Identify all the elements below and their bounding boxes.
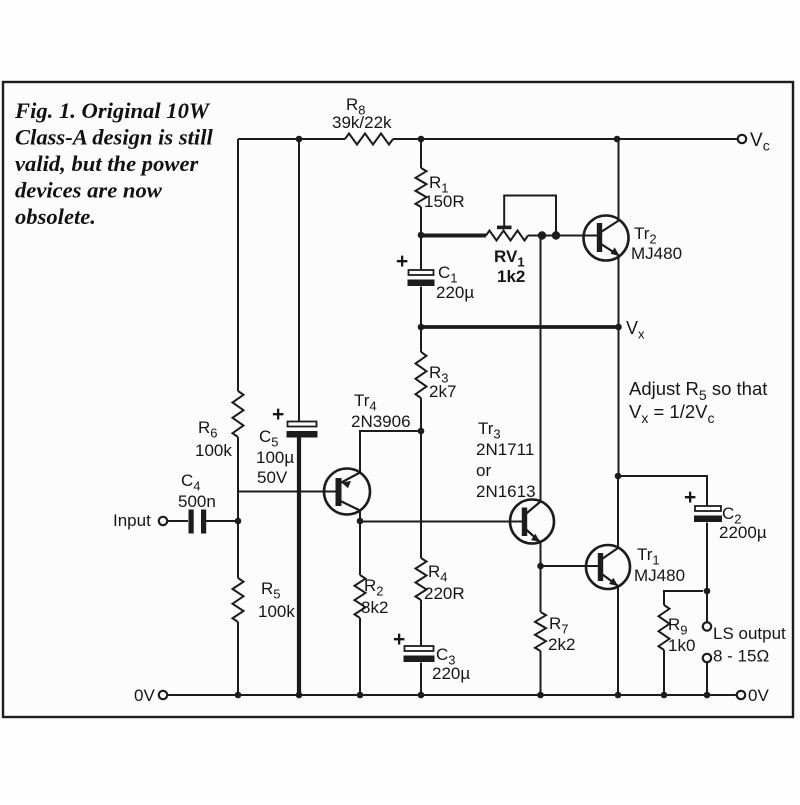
wire: R1 from top rail bbox=[420, 139, 422, 168]
node: junction dot Tr4 collector/R2 bbox=[357, 518, 364, 525]
svg-text:2N3906: 2N3906 bbox=[351, 412, 411, 431]
terminal LS output + bbox=[703, 622, 786, 643]
note: Adjust RV setting text bbox=[629, 378, 767, 426]
capacitor C1 220u bbox=[396, 250, 474, 302]
wire: C5 branch from top rail bbox=[298, 139, 300, 421]
svg-text:2N1613: 2N1613 bbox=[476, 482, 536, 501]
node: junction dot R3/R4/Tr4 emitter bbox=[418, 428, 425, 435]
wire: R9 tap from C2 line bbox=[664, 591, 703, 605]
node: junction dot top rail / R1 bbox=[418, 136, 425, 143]
svg-text:+: + bbox=[272, 403, 284, 426]
caption text bbox=[14, 98, 213, 229]
node: junction dot Vx / Tr2 emitter bbox=[615, 324, 622, 331]
wire: C5 to 0V rail (thick) bbox=[297, 438, 301, 696]
capacitor C3 220u bbox=[393, 628, 470, 683]
svg-text:Fig. 1. Original 10W: Fig. 1. Original 10W bbox=[14, 98, 211, 123]
wire: V+ top rail right segment bbox=[393, 138, 738, 140]
wire: thick wire node to RV1 bbox=[421, 234, 486, 238]
wire: V+ top rail left segment bbox=[240, 138, 345, 140]
transistor Tr3 2N1711/2N1613 bbox=[476, 419, 554, 544]
wire: Vx node thick wire bbox=[421, 325, 619, 329]
svg-text:obsolete.: obsolete. bbox=[15, 204, 96, 229]
node: junction dot C2 / R9 bbox=[704, 588, 711, 595]
svg-text:39k/22k: 39k/22k bbox=[332, 113, 392, 132]
svg-text:MJ480: MJ480 bbox=[631, 244, 682, 263]
node: junction dot output / Tr1 collector bbox=[615, 473, 622, 480]
terminal LS output - bbox=[703, 647, 769, 666]
svg-text:Class-A design is still: Class-A design is still bbox=[15, 125, 213, 150]
wire: C1 to Vx node bbox=[420, 287, 422, 328]
terminal Input bbox=[113, 511, 167, 530]
wire: Tr3 emitter node to Tr1 base bbox=[541, 565, 600, 567]
wire: Tr4 collector down to node bbox=[359, 511, 361, 522]
wire: R6 bottom to input node bbox=[237, 437, 239, 578]
svg-text:valid, but the power: valid, but the power bbox=[15, 151, 198, 176]
wire: R4 to C3 bbox=[420, 600, 422, 646]
wire: bias node to Tr4 base bbox=[238, 491, 336, 493]
node: junction dots on 0V rail bbox=[235, 692, 711, 699]
wire: R7 to 0V rail bbox=[540, 651, 542, 695]
svg-text:220µ: 220µ bbox=[432, 664, 470, 683]
wire: Vx down to output node bbox=[618, 327, 620, 476]
wire: C3 to 0V rail bbox=[420, 663, 422, 696]
wire: RV1 wiper loop to track end bbox=[504, 196, 556, 233]
wire: Tr1 collector up to output node bbox=[617, 476, 619, 548]
resistor R6 100k bbox=[195, 391, 244, 460]
terminal Vc bbox=[738, 130, 770, 154]
svg-text:2200µ: 2200µ bbox=[719, 523, 767, 542]
wire: R3 from Vx node bbox=[420, 327, 422, 352]
wire: R3 to Tr4 emitter node bbox=[420, 398, 422, 431]
svg-text:2N1711: 2N1711 bbox=[476, 440, 534, 459]
wire: R2 from collector node bbox=[359, 521, 361, 575]
wire: Tr3 emitter down to node bbox=[540, 541, 542, 566]
wire: R2 to 0V rail bbox=[359, 618, 361, 695]
node: junction dot R1/C1/RV1 bbox=[418, 232, 425, 239]
wire: output node to C2 bbox=[618, 476, 707, 506]
resistor R7 2k2 bbox=[535, 612, 575, 654]
svg-text:8k2: 8k2 bbox=[361, 598, 388, 617]
svg-text:0V: 0V bbox=[134, 686, 155, 705]
resistor R8 39k/22k bbox=[332, 95, 393, 145]
capacitor C5 100u 50V bbox=[256, 403, 318, 487]
terminal 0V left bbox=[134, 686, 167, 705]
resistor R4 220R bbox=[416, 558, 465, 603]
svg-text:1k0: 1k0 bbox=[668, 636, 695, 655]
svg-text:100µ: 100µ bbox=[256, 448, 294, 467]
wire: Tr4 collector node to Tr3 base bbox=[360, 521, 524, 523]
svg-text:MJ480: MJ480 bbox=[634, 566, 685, 585]
node: junction dot Tr3 collector / RV1 bbox=[538, 231, 546, 239]
resistor R3 2k7 bbox=[416, 352, 457, 401]
terminal 0V right bbox=[737, 686, 770, 705]
svg-text:500n: 500n bbox=[178, 492, 216, 511]
svg-text:+: + bbox=[684, 486, 696, 509]
wire: C2 to LS output bbox=[706, 523, 708, 623]
wire: Tr4 emitter up and over to R3/R4 node bbox=[360, 431, 421, 473]
wire: R5 bottom to 0V rail bbox=[237, 622, 239, 695]
wire: R9 to 0V rail bbox=[663, 650, 665, 695]
svg-text:220µ: 220µ bbox=[436, 283, 474, 302]
svg-text:LS output: LS output bbox=[713, 624, 786, 643]
node: junction dot wiper / RV1 bbox=[552, 231, 560, 239]
node: junction dot Tr3 emitter / Tr1 base bbox=[537, 563, 544, 570]
wire: R1 to bias wire node bbox=[420, 207, 422, 235]
resistor R5 100k bbox=[233, 578, 296, 622]
wire: left vertical from rail to R6 bbox=[238, 139, 240, 391]
wire: LS output lower terminal to 0V rail bbox=[706, 662, 708, 695]
node: junction dot C4/R5/R6 bbox=[235, 518, 242, 525]
resistor R9 1k0 bbox=[659, 605, 696, 655]
wire: C1 from bias node bbox=[420, 235, 422, 270]
svg-text:0V: 0V bbox=[748, 686, 769, 705]
svg-text:8 - 15Ω: 8 - 15Ω bbox=[713, 647, 769, 666]
wire: Tr1 emitter to 0V rail bbox=[617, 586, 619, 695]
svg-text:100k: 100k bbox=[258, 602, 295, 621]
node label Vx bbox=[626, 318, 645, 342]
svg-text:or: or bbox=[476, 461, 491, 480]
svg-text:150R: 150R bbox=[424, 192, 465, 211]
transistor Tr2 MJ480 bbox=[584, 216, 683, 264]
resistor R2 8k2 bbox=[355, 575, 389, 618]
node: junction dot top rail / Tr2 collector bbox=[614, 136, 621, 143]
wire: R4 from R3 node bbox=[420, 431, 422, 558]
capacitor C4 500n bbox=[178, 471, 216, 534]
svg-text:+: + bbox=[396, 250, 408, 273]
wire: R7 from emitter node bbox=[540, 566, 542, 612]
svg-text:+: + bbox=[393, 628, 405, 651]
wire: Tr3 collector up to RV1 node bbox=[540, 236, 542, 504]
transistor Tr1 MJ480 bbox=[586, 545, 685, 589]
wire: Tr2 collector to top rail bbox=[618, 139, 620, 220]
svg-text:100k: 100k bbox=[195, 441, 232, 460]
svg-text:50V: 50V bbox=[257, 468, 288, 487]
wire: C4 to bias node bbox=[206, 520, 238, 522]
svg-text:220R: 220R bbox=[424, 584, 465, 603]
svg-text:1k2: 1k2 bbox=[497, 267, 525, 286]
svg-text:Input: Input bbox=[113, 511, 151, 530]
wire: 0V bottom rail bbox=[167, 694, 737, 696]
resistor R1 150R bbox=[416, 168, 465, 211]
svg-text:devices are now: devices are now bbox=[15, 178, 163, 203]
wire: Tr2 emitter to Vx bbox=[618, 256, 620, 327]
node: junction dot top rail / left branch bbox=[296, 136, 303, 143]
capacitor C2 2200u bbox=[684, 486, 767, 542]
transistor Tr4 2N3906 bbox=[324, 391, 411, 515]
svg-text:2k7: 2k7 bbox=[429, 382, 456, 401]
svg-text:2k2: 2k2 bbox=[548, 635, 575, 654]
wire: RV1 to Tr2 base bbox=[528, 235, 597, 237]
potentiometer RV1 1k2 bbox=[486, 226, 528, 286]
node: junction dot C1/R3/Vx bbox=[418, 324, 425, 331]
wire: input terminal to C4 bbox=[167, 520, 188, 522]
